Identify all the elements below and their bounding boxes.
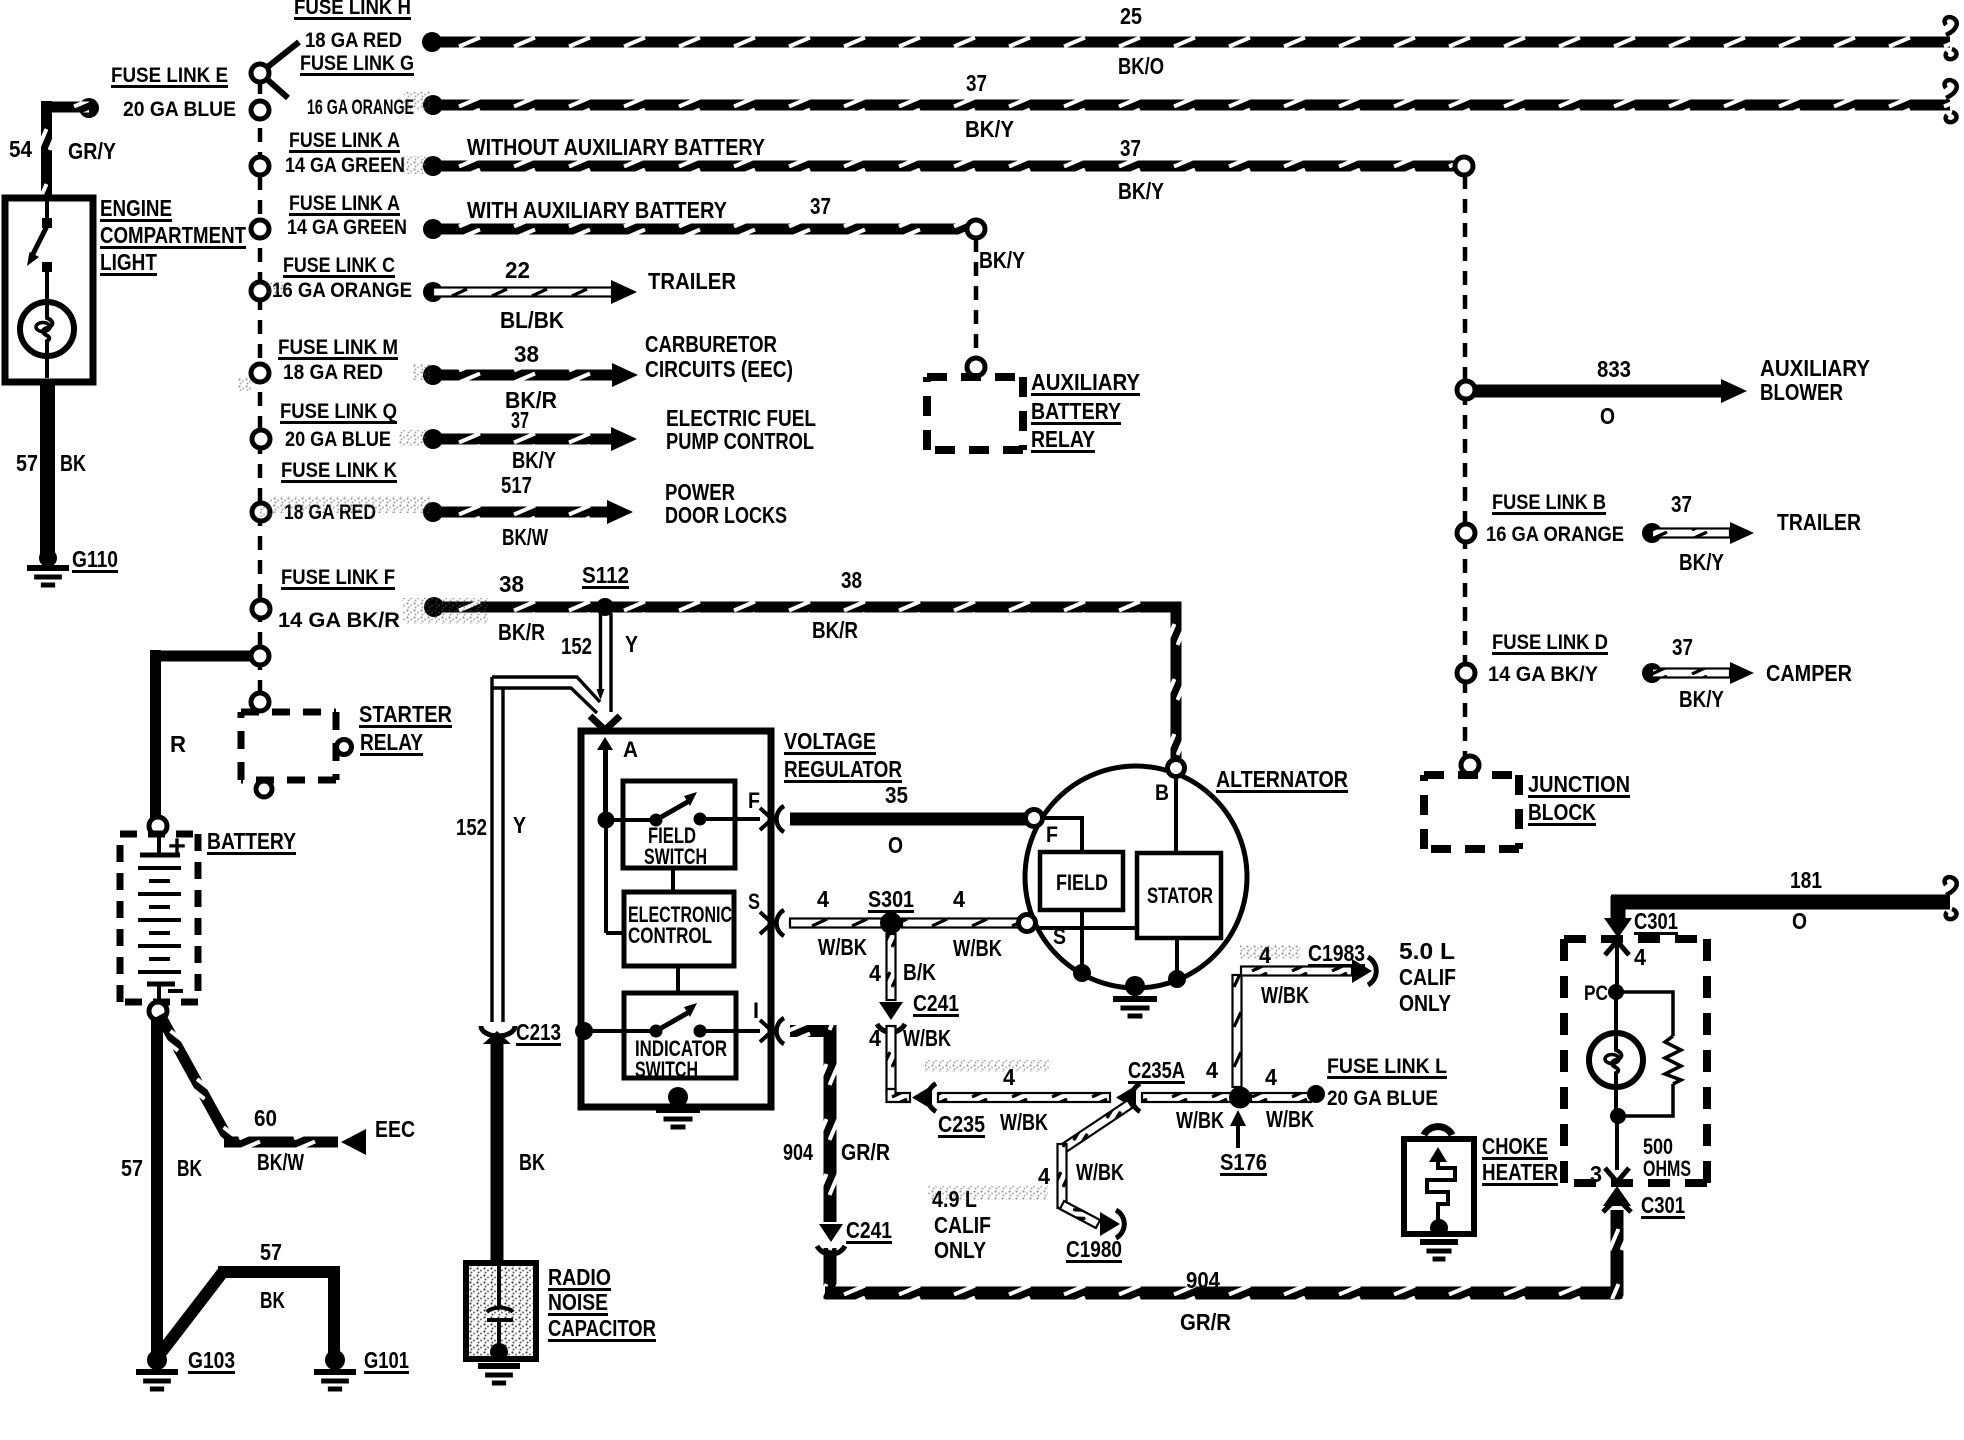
connector C301 top [1604, 918, 1632, 938]
node: junction block circle [1461, 756, 1479, 774]
wire 4 W/BK to C1983 [1241, 967, 1352, 976]
svg-text:14 GA GREEN: 14 GA GREEN [287, 216, 407, 239]
wire 37 arrowhead [611, 427, 637, 451]
alternator B internal wire [1174, 776, 1178, 853]
alternator S terminal circle [1019, 915, 1036, 932]
svg-text:C213: C213 [516, 1019, 561, 1045]
svg-text:BK/Y: BK/Y [979, 247, 1025, 273]
svg-text:BK/Y: BK/Y [1118, 178, 1164, 204]
svg-text:BK/W: BK/W [257, 1149, 304, 1175]
svg-text:C301: C301 [1641, 1192, 1685, 1218]
wire 37 continuation hook [1945, 80, 1957, 98]
wire 37 camper arrowhead [1730, 662, 1754, 684]
connector C213 [481, 1026, 515, 1036]
svg-text:5.0 L: 5.0 L [1399, 938, 1455, 964]
svg-text:S: S [748, 889, 760, 914]
svg-text:GR/R: GR/R [1180, 1309, 1231, 1335]
fuse link H symbol [260, 42, 299, 73]
svg-text:517: 517 [501, 472, 532, 498]
svg-text:+: + [168, 830, 186, 863]
connector C235A [1116, 1086, 1136, 1110]
svg-text:4: 4 [817, 886, 829, 912]
svg-text:BK: BK [60, 450, 86, 476]
svg-text:FUSE LINK D: FUSE LINK D [1492, 631, 1608, 654]
svg-text:Y: Y [513, 812, 526, 838]
svg-text:BK/W: BK/W [502, 524, 548, 550]
svg-text:W/BK: W/BK [1176, 1107, 1224, 1133]
node: battery positive circle [149, 817, 167, 835]
svg-text:16 GA ORANGE: 16 GA ORANGE [1486, 523, 1624, 546]
svg-text:WITHOUT AUXILIARY BATTERY: WITHOUT AUXILIARY BATTERY [467, 134, 765, 160]
wire R battery positive vertical [150, 650, 161, 818]
auxiliary battery relay box [927, 373, 1023, 381]
wire 57 BK to G101 horizontal [218, 1266, 340, 1278]
svg-text:BK: BK [260, 1287, 285, 1313]
wire 22 BL/BK start dot [423, 282, 443, 302]
svg-text:54: 54 [9, 136, 32, 162]
connector C301 bottom [1603, 1186, 1631, 1206]
svg-text:OHMS: OHMS [1643, 1156, 1691, 1181]
pin 3 arrow out of module [1605, 1168, 1629, 1182]
svg-text:25: 25 [1120, 3, 1142, 29]
svg-text:152: 152 [456, 814, 487, 840]
svg-text:37: 37 [1671, 491, 1692, 517]
wire 904 GR/R below C241 [824, 1248, 837, 1299]
EEC connector arrowhead [341, 1129, 366, 1155]
wire 4 W/BK to C1980 elbow [1060, 1201, 1100, 1228]
svg-text:S176: S176 [1220, 1149, 1267, 1175]
svg-text:37: 37 [511, 407, 529, 433]
svg-text:4: 4 [1634, 944, 1646, 970]
wire 4 B/K S301 down [887, 934, 896, 1000]
wire 22 arrowhead to trailer [611, 280, 637, 304]
ground G101 [314, 1369, 356, 1375]
wire 38 BK/R to carburetor [433, 370, 613, 381]
field ground wire [1080, 910, 1084, 972]
svg-text:35: 35 [885, 782, 908, 808]
500 ohms module box [1564, 935, 1707, 943]
svg-text:O: O [1600, 403, 1615, 429]
svg-text:C241: C241 [913, 990, 959, 1016]
wire 517 arrowhead [607, 500, 633, 524]
svg-text:20 GA BLUE: 20 GA BLUE [285, 428, 391, 451]
svg-text:VOLTAGE: VOLTAGE [784, 728, 876, 754]
svg-text:FUSE LINK F: FUSE LINK F [281, 566, 395, 589]
svg-text:37: 37 [1672, 634, 1693, 660]
svg-text:FUSE LINK E: FUSE LINK E [111, 64, 228, 87]
svg-text:4: 4 [953, 886, 965, 912]
wire 25 continuation hook [1945, 17, 1957, 35]
stator box [1137, 853, 1221, 938]
svg-text:STATOR: STATOR [1147, 883, 1213, 908]
battery - sign [168, 989, 183, 993]
svg-text:Y: Y [625, 631, 638, 657]
wire 833 arrowhead [1721, 379, 1747, 403]
wire 22 BL/BK (thin) [433, 288, 612, 297]
svg-text:833: 833 [1597, 356, 1631, 382]
svg-text:BK/Y: BK/Y [1679, 549, 1724, 575]
svg-text:G101: G101 [364, 1347, 409, 1373]
wire 60 BK/W diagonal [155, 1012, 235, 1144]
svg-text:20 GA BLUE: 20 GA BLUE [1327, 1087, 1438, 1110]
ground G103 [136, 1369, 178, 1375]
svg-text:FUSE LINK H: FUSE LINK H [294, 0, 411, 19]
svg-text:BK/Y: BK/Y [1679, 686, 1724, 712]
svg-text:18 GA RED: 18 GA RED [305, 29, 402, 52]
electronic control to indicator link [676, 966, 680, 993]
connector C1980 end [1100, 1212, 1120, 1236]
node: fuse link B circle [1457, 524, 1475, 542]
svg-text:W/BK: W/BK [1261, 982, 1309, 1008]
svg-text:F: F [748, 788, 760, 813]
svg-text:152: 152 [561, 633, 592, 659]
svg-text:BATTERY: BATTERY [207, 828, 296, 854]
wire 4 W/BK C235A to S176 [1142, 1093, 1234, 1102]
svg-text:FUSE LINK A: FUSE LINK A [289, 192, 400, 215]
svg-text:GR/R: GR/R [841, 1139, 890, 1165]
svg-text:EEC: EEC [375, 1116, 415, 1142]
electronic control box [624, 892, 734, 966]
svg-text:4: 4 [1206, 1057, 1218, 1083]
svg-text:C241: C241 [846, 1217, 892, 1243]
svg-text:CHOKE: CHOKE [1482, 1133, 1548, 1159]
wire 4 W/BK S301 to alternator S [902, 919, 1021, 928]
svg-text:CIRCUITS (EEC): CIRCUITS (EEC) [645, 356, 793, 382]
node: auxiliary blower junction circle [1457, 381, 1475, 399]
svg-text:W/BK: W/BK [903, 1025, 951, 1051]
node: fuse link A circle [251, 157, 269, 175]
node: fuse link K circle [252, 503, 270, 521]
connector C241 (904) [819, 1224, 843, 1242]
svg-text:TRAILER: TRAILER [648, 268, 736, 294]
alternator B terminal circle [1168, 760, 1185, 777]
svg-text:C1980: C1980 [1066, 1236, 1122, 1262]
node: fuse link M circle [251, 364, 269, 382]
svg-text:16 GA ORANGE: 16 GA ORANGE [307, 96, 414, 119]
field switch to electronic control link [671, 868, 675, 892]
svg-text:BLOCK: BLOCK [1528, 799, 1596, 825]
svg-text:C301: C301 [1634, 908, 1678, 934]
svg-text:FUSE LINK M: FUSE LINK M [278, 336, 398, 359]
svg-text:DOOR LOCKS: DOOR LOCKS [665, 502, 787, 528]
svg-text:CARBURETOR: CARBURETOR [645, 331, 777, 357]
module bottom node dot [1610, 1108, 1626, 1124]
node: aux relay wire end circle [967, 220, 985, 238]
choke heater ground [1420, 1239, 1458, 1245]
node: starter relay bottom circle [256, 781, 272, 797]
wire 4 W/BK below C241 [887, 1026, 896, 1093]
svg-text:38: 38 [841, 567, 862, 593]
starter relay box [241, 709, 336, 716]
wire 904 GR/R from terminal I [790, 1025, 836, 1037]
choke heater element [1429, 1147, 1447, 1162]
svg-text:ONLY: ONLY [934, 1237, 986, 1263]
svg-text:FIELD: FIELD [1056, 870, 1108, 895]
wire 38 BK/R start dot [423, 365, 443, 385]
svg-text:CONTROL: CONTROL [628, 923, 712, 948]
wire 37 BK/Y to fuel pump [433, 434, 612, 445]
svg-text:FUSE LINK G: FUSE LINK G [300, 52, 414, 75]
svg-text:60: 60 [254, 1105, 277, 1131]
svg-text:W/BK: W/BK [953, 935, 1002, 961]
svg-text:O: O [888, 832, 903, 858]
lamp to bottom node wire [1614, 1087, 1618, 1116]
svg-text:HEATER: HEATER [1482, 1159, 1558, 1185]
wire 181 O [1611, 895, 1950, 910]
svg-text:BK: BK [177, 1155, 202, 1181]
wire 37 BK/Y without-aux start dot [423, 156, 443, 176]
svg-text:SWITCH: SWITCH [644, 844, 707, 869]
battery box (dashed) [120, 831, 198, 838]
alternator F internal wire [1042, 818, 1082, 852]
svg-text:14 GA BK/Y: 14 GA BK/Y [1488, 663, 1598, 686]
svg-text:C235A: C235A [1128, 1057, 1185, 1083]
alternator circle [1025, 766, 1247, 988]
svg-text:W/BK: W/BK [818, 934, 867, 960]
node: fuse link F circle [252, 600, 270, 618]
terminal A arrow [590, 716, 620, 730]
voltage regulator box [581, 731, 771, 1107]
svg-text:ONLY: ONLY [1399, 990, 1451, 1016]
svg-text:57: 57 [16, 450, 38, 476]
ground G103 dot [147, 1350, 167, 1370]
wire 37 BK/Y without auxiliary battery [433, 161, 1464, 172]
svg-text:WITH AUXILIARY BATTERY: WITH AUXILIARY BATTERY [467, 197, 727, 223]
node: bus top circle [251, 64, 269, 82]
wire 152 Y from S112 [599, 613, 602, 691]
svg-text:B/K: B/K [903, 959, 936, 985]
wire 57 BK battery to G103 [151, 1019, 163, 1360]
svg-text:3: 3 [1590, 1161, 1602, 1187]
choke heater top arc [1424, 1127, 1452, 1135]
svg-text:38: 38 [514, 341, 539, 367]
speckle patches [270, 496, 430, 513]
svg-text:A: A [623, 737, 638, 762]
svg-text:R: R [170, 731, 186, 757]
indicator switch box [624, 993, 736, 1078]
svg-text:4: 4 [1038, 1163, 1050, 1189]
wire 57 BK to G101 diagonal [160, 1272, 223, 1354]
svg-text:FUSE LINK L: FUSE LINK L [1327, 1055, 1447, 1078]
svg-text:AUXILIARY: AUXILIARY [1760, 355, 1870, 381]
wire 37 BK/Y camper dot [1642, 663, 1662, 683]
stator ground wire [1175, 938, 1179, 978]
terminal I connector [760, 1020, 772, 1042]
wire R battery positive horizontal [150, 651, 251, 662]
terminal F connector [760, 808, 772, 830]
svg-text:PC: PC [1584, 982, 1608, 1005]
resistor 500 ohms zigzag [1665, 1036, 1681, 1084]
svg-text:BK: BK [519, 1149, 545, 1175]
svg-text:20 GA BLUE: 20 GA BLUE [123, 98, 236, 121]
module resistor branch [1616, 992, 1673, 1036]
wire 57 BK to G101 vertical [328, 1266, 340, 1356]
alternator ground [1113, 996, 1157, 1002]
wire 833 O to auxiliary blower [1474, 385, 1722, 398]
right dashed bus [1463, 175, 1468, 757]
radio capacitor ground [478, 1363, 520, 1369]
svg-text:BK/O: BK/O [1118, 53, 1164, 79]
wire 57 BK from light [40, 380, 55, 560]
svg-text:57: 57 [260, 1239, 282, 1265]
svg-text:14 GA GREEN: 14 GA GREEN [285, 154, 405, 177]
svg-text:37: 37 [810, 193, 831, 219]
wire 25 BK/O [432, 37, 1950, 48]
wire 4 W/BK up from S176 to C1983 corner [1233, 975, 1242, 1087]
ground G110 dot [39, 549, 57, 567]
svg-text:4: 4 [1265, 1064, 1277, 1090]
node: fuse link A2 circle [251, 220, 269, 238]
field box [1040, 852, 1123, 910]
svg-text:G110: G110 [72, 546, 118, 572]
svg-text:FUSE LINK A: FUSE LINK A [289, 129, 400, 152]
svg-text:BK/Y: BK/Y [512, 447, 556, 473]
fuse link L dot [1307, 1085, 1325, 1103]
alternator F terminal circle [1026, 810, 1043, 827]
wire 25 BK/O start dot [422, 32, 442, 52]
wire 4 W/BK to C1980 vertical [1058, 1144, 1067, 1208]
connector C235 [912, 1086, 932, 1110]
wire 37 BK/Y with auxiliary battery [433, 224, 976, 235]
svg-text:AUXILIARY: AUXILIARY [1031, 369, 1140, 395]
indicator switch symbol [575, 1022, 593, 1040]
svg-text:FUSE LINK Q: FUSE LINK Q [280, 400, 397, 423]
svg-text:O: O [1792, 908, 1807, 934]
ground G110 [27, 565, 69, 571]
connector C1983 end [1352, 959, 1372, 983]
battery plates [157, 836, 161, 853]
svg-text:904: 904 [1186, 1267, 1220, 1293]
terminal S connector [760, 912, 772, 934]
svg-text:181: 181 [1790, 867, 1822, 893]
svg-text:CAPACITOR: CAPACITOR [548, 1315, 656, 1341]
pin 4 arrow into module [1605, 941, 1629, 955]
wire 517 BK/W to door locks [433, 507, 608, 518]
svg-text:14 GA BK/R: 14 GA BK/R [278, 609, 400, 632]
regulator ground dot [668, 1087, 688, 1107]
node: starter relay right circle [337, 740, 352, 755]
module lamp [1589, 1033, 1643, 1087]
splice S112 dot [596, 598, 614, 616]
wire 37 BK/Y fuel pump start dot [423, 429, 443, 449]
engine light lamp [20, 302, 74, 356]
svg-text:STARTER: STARTER [359, 701, 452, 727]
wire 38 BK/R start dot [424, 597, 444, 617]
wire 38 BK/R down to alternator B [1171, 602, 1182, 762]
svg-text:4: 4 [869, 1025, 881, 1051]
node: relay top circle [967, 358, 985, 376]
svg-text:F: F [1046, 822, 1058, 847]
node: fuse link C circle [251, 282, 269, 300]
svg-text:BLOWER: BLOWER [1760, 379, 1843, 405]
svg-text:FUSE LINK K: FUSE LINK K [281, 459, 397, 482]
wire 4 W/BK corner to C235 [887, 1089, 911, 1102]
regulator internal bus [604, 749, 608, 933]
svg-text:C235: C235 [938, 1111, 985, 1137]
wire 152 Y branch corner [492, 677, 600, 702]
svg-text:CALIF: CALIF [934, 1212, 991, 1238]
svg-text:38: 38 [499, 571, 524, 597]
svg-text:LIGHT: LIGHT [100, 249, 157, 275]
svg-text:S301: S301 [868, 886, 914, 912]
node: battery negative circle [149, 1002, 167, 1020]
junction block box [1424, 771, 1519, 779]
wire 38 arrowhead [612, 363, 638, 387]
S176 pointer arrow [1236, 1118, 1240, 1148]
svg-text:37: 37 [966, 70, 987, 96]
svg-text:NOISE: NOISE [548, 1289, 608, 1315]
svg-text:RELAY: RELAY [360, 729, 423, 755]
wire 54 GR/Y vertical [41, 101, 52, 198]
svg-text:904: 904 [783, 1139, 813, 1165]
svg-text:57: 57 [121, 1155, 143, 1181]
engine compartment light box [5, 198, 93, 382]
svg-text:BK/Y: BK/Y [965, 116, 1014, 142]
node: fuse link E circle [251, 101, 269, 119]
wire 54 GR/Y end dot [79, 98, 99, 118]
alternator ground dot [1125, 976, 1145, 996]
field switch box [623, 781, 735, 868]
svg-text:JUNCTION: JUNCTION [1528, 771, 1630, 797]
wire 37 BK/Y to camper [1652, 669, 1730, 678]
svg-text:COMPARTMENT: COMPARTMENT [100, 222, 246, 248]
wire 37 BK/Y start dot [423, 95, 443, 115]
radio noise capacitor box [466, 1263, 536, 1359]
wire 37 BK/Y with-aux start dot [423, 219, 443, 239]
wire 60 BK/W horizontal [224, 1137, 338, 1148]
wire 4 W/BK C235 to C235A [938, 1093, 1110, 1102]
svg-text:S112: S112 [582, 562, 629, 588]
connector C241 [879, 1002, 903, 1020]
svg-text:22: 22 [505, 257, 530, 283]
svg-text:W/BK: W/BK [1000, 1109, 1048, 1135]
ground G101 dot [325, 1350, 345, 1370]
main feed bus (dashed) [258, 80, 263, 712]
wire 37 BK/Y trailer dot [1642, 523, 1662, 543]
wire 38 BK/R main [434, 602, 1176, 613]
wire 181 continuation hook [1945, 877, 1957, 895]
svg-text:RADIO: RADIO [548, 1264, 611, 1290]
svg-text:37: 37 [1120, 135, 1141, 161]
wire 4 W/BK regulator S to S301 [790, 919, 884, 928]
wire 35 O to alternator field [790, 813, 1028, 826]
svg-text:BK/R: BK/R [498, 619, 545, 645]
svg-text:REGULATOR: REGULATOR [784, 756, 902, 782]
svg-text:G103: G103 [188, 1347, 235, 1373]
alternator S internal wire [1035, 926, 1137, 930]
svg-text:RELAY: RELAY [1031, 426, 1095, 452]
wire 37 trailer arrowhead [1730, 522, 1754, 544]
svg-text:ALTERNATOR: ALTERNATOR [1216, 766, 1348, 792]
node: right bus top circle [1455, 157, 1473, 175]
node: bus-battery junction circle [251, 647, 269, 665]
svg-text:ENGINE: ENGINE [100, 195, 172, 221]
wire 54 GR/Y horizontal [41, 102, 89, 113]
svg-text:BATTERY: BATTERY [1031, 398, 1121, 424]
splice S176 dot [1229, 1087, 1251, 1109]
svg-text:4: 4 [869, 960, 881, 986]
capacitor symbol [497, 1263, 501, 1308]
choke heater ground dot [1430, 1219, 1448, 1237]
svg-text:I: I [753, 998, 759, 1023]
svg-text:B: B [1155, 780, 1169, 805]
wire 904 GR/R horizontal [825, 1287, 1620, 1300]
splice S301 dot [880, 912, 902, 934]
module lamp branch [1614, 992, 1618, 1033]
svg-text:W/BK: W/BK [1076, 1159, 1124, 1185]
node: bus lower circle [251, 693, 269, 711]
svg-text:W/BK: W/BK [1266, 1106, 1314, 1132]
